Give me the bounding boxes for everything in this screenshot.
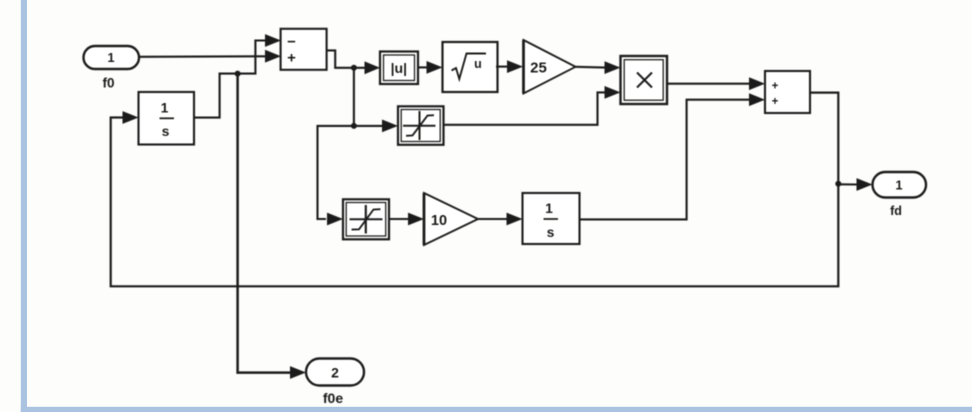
outport 2 (f0e) oval xyxy=(306,359,364,386)
svg-text:s: s xyxy=(547,224,555,240)
junction node at 353.9,67.8 xyxy=(351,65,357,71)
junction node at 838.3,183.8 xyxy=(835,181,841,187)
svg-text:|u|: |u| xyxy=(391,60,407,76)
wire integrator2 output up to sum2 bottom input xyxy=(580,100,750,220)
sum block 1 xyxy=(281,29,327,70)
wire junction to saturation1 input xyxy=(354,125,383,127)
saturation block 1 xyxy=(398,106,444,145)
bottom blue frame bar xyxy=(21,407,972,412)
wire abs output to sqrt input xyxy=(418,66,428,68)
svg-text:1: 1 xyxy=(545,200,553,216)
svg-text:+: + xyxy=(772,96,779,108)
svg-text:−: − xyxy=(287,33,296,50)
gain 25 triangle xyxy=(524,40,576,94)
wire junction down to saturation1 row xyxy=(353,68,355,126)
junction node at 237.6,73.6 xyxy=(235,71,241,77)
wire integrator1 output up to sum1 minus input xyxy=(194,41,266,118)
arrowhead gain25 in xyxy=(507,60,523,73)
sum block 2 xyxy=(765,71,810,113)
arrowhead sat2 in xyxy=(327,213,343,226)
wire junction to outport fd xyxy=(838,183,857,185)
svg-text:u: u xyxy=(474,57,482,71)
wire gain25 output to product top input xyxy=(576,66,607,69)
arrowhead sum2 top in xyxy=(749,77,765,90)
arrowhead integrator1 in xyxy=(123,111,139,124)
arrowhead gain10 in xyxy=(408,213,424,226)
gain 10 triangle xyxy=(424,193,478,245)
wire sqrt output to gain25 input xyxy=(496,66,508,68)
wire product output to sum2 top input xyxy=(667,83,749,85)
integrator 2 block 1/s xyxy=(523,193,580,244)
svg-text:s: s xyxy=(162,123,170,139)
wire sum2 output feedback loop to integrator1 input xyxy=(111,93,839,287)
abs block |u| xyxy=(380,52,418,85)
svg-text:+: + xyxy=(287,49,296,66)
svg-text:1: 1 xyxy=(107,50,114,65)
wire saturation2 output to gain10 input xyxy=(389,218,408,220)
svg-text:1: 1 xyxy=(895,178,902,193)
svg-text:fd: fd xyxy=(890,204,902,218)
wire junction left and down to saturation2 input xyxy=(318,126,354,219)
arrowhead sum2 bottom in xyxy=(749,93,765,106)
arrowhead fd xyxy=(857,178,873,191)
arrowhead product bottom in xyxy=(605,86,621,99)
arrowhead sum1 plus xyxy=(265,50,281,63)
wire sum1 output to abs input xyxy=(327,50,366,67)
arrowhead abs in xyxy=(365,61,381,74)
arrowhead sum1 minus xyxy=(265,34,281,47)
integrator 1 block 1/s xyxy=(139,92,195,145)
arrowhead sat1 in xyxy=(382,120,398,133)
svg-text:1: 1 xyxy=(161,100,169,116)
left blue frame line xyxy=(21,0,27,412)
outport 1 (fd) oval xyxy=(873,172,927,198)
junction node at 353.9,125.9 xyxy=(351,123,357,129)
arrowhead sqrt in xyxy=(427,61,443,74)
arrowhead product top in xyxy=(605,61,621,74)
svg-text:2: 2 xyxy=(331,365,339,381)
svg-text:f0: f0 xyxy=(102,76,114,91)
svg-text:10: 10 xyxy=(431,213,447,229)
saturation block 2 xyxy=(343,199,389,239)
svg-text:f0e: f0e xyxy=(323,390,343,406)
inport 1 (f0) oval xyxy=(84,46,140,69)
sqrt block xyxy=(443,42,498,92)
wire inport1 to sum1 plus input xyxy=(139,55,267,58)
product block X xyxy=(621,56,668,104)
svg-text:+: + xyxy=(772,80,779,92)
wire gain10 output to integrator2 input xyxy=(478,218,507,220)
arrowhead f0e xyxy=(290,366,306,379)
wire junction down to outport f0e xyxy=(238,74,291,373)
svg-text:25: 25 xyxy=(530,60,547,77)
arrowhead integrator2 in xyxy=(507,213,523,226)
wire saturation1 output to product bottom input xyxy=(444,92,607,124)
